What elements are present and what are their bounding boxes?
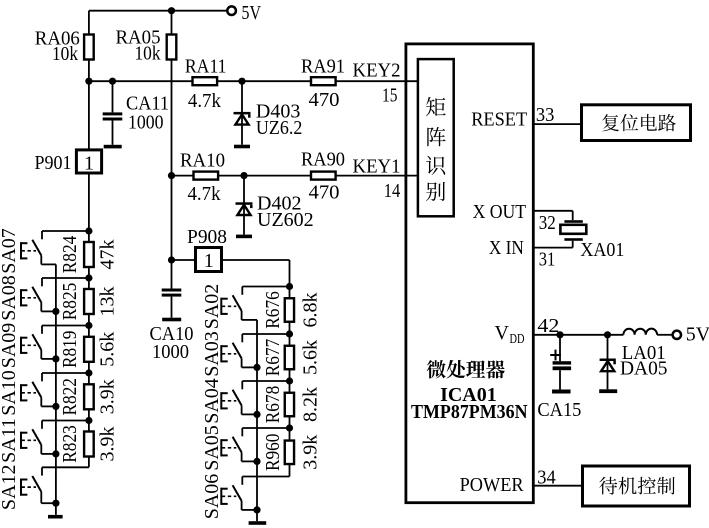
resistor R824: [84, 242, 94, 267]
svg-text:SA03: SA03: [201, 331, 223, 377]
switch SA10: [41, 373, 43, 381]
node left bus 1: [52, 308, 59, 315]
svg-text:3.9k: 3.9k: [97, 379, 119, 414]
svg-text:SA10: SA10: [0, 370, 20, 416]
svg-text:DA05: DA05: [620, 357, 668, 379]
wire SA07 bottom: [41, 263, 56, 265]
diode D403 zener: [241, 81, 243, 145]
svg-text:UZ6.2: UZ6.2: [256, 117, 303, 139]
svg-text:SA06: SA06: [201, 474, 223, 520]
svg-text:33: 33: [536, 104, 555, 126]
label matrix char 别: [426, 182, 445, 201]
svg-text:1: 1: [204, 250, 214, 272]
wire SA07 top: [42, 230, 89, 232]
wire RA05 to P908: [171, 176, 173, 289]
node left bus 3: [52, 403, 59, 410]
node P908 tap: [168, 256, 175, 263]
wire SA08 bottom: [41, 310, 56, 312]
wire X IN pin: [572, 241, 574, 248]
svg-text:SA11: SA11: [0, 418, 20, 463]
svg-text:SA04: SA04: [201, 378, 223, 424]
svg-text:R822: R822: [59, 378, 81, 416]
resistor R822: [84, 384, 94, 409]
wire RESET pin: [533, 123, 581, 125]
switch SA04: [241, 381, 243, 389]
svg-text:KEY2: KEY2: [353, 59, 401, 81]
label standby control: [599, 477, 617, 495]
node left chain 2: [85, 322, 92, 329]
svg-text:X IN: X IN: [489, 237, 524, 259]
node mid chain 2: [286, 377, 293, 384]
svg-text:RA11: RA11: [185, 55, 227, 77]
capacitor CA15: [559, 335, 561, 361]
node left chain 4: [85, 417, 92, 424]
switch SA08: [41, 278, 43, 286]
node mid bus 1: [253, 364, 260, 371]
wire middle chain: [289, 287, 291, 477]
resistor RA90: [311, 172, 336, 180]
label matrix char 识: [426, 156, 445, 175]
ground D402: [236, 235, 252, 239]
wire SA04 top: [242, 380, 289, 382]
node mid chain 1: [286, 330, 293, 337]
block reset circuit: [582, 105, 691, 141]
node mid chain 3: [286, 424, 293, 431]
svg-text:XA01: XA01: [580, 239, 624, 261]
svg-text:14: 14: [384, 180, 401, 202]
wire X OUT pin: [533, 210, 572, 212]
wire KEY2 row: [89, 80, 418, 82]
wire SA03 bottom: [242, 366, 257, 368]
ground middle ladder: [256, 510, 258, 521]
wire SA09 bottom: [41, 358, 56, 360]
connector P901: [88, 81, 90, 150]
wire middle bus: [256, 320, 258, 510]
label matrix char 矩: [426, 97, 446, 116]
svg-text:31: 31: [539, 248, 556, 270]
svg-text:P908: P908: [187, 226, 227, 248]
node CA15: [556, 331, 563, 338]
connector P908: [172, 259, 196, 261]
svg-text:10k: 10k: [52, 43, 78, 65]
svg-text:TMP87PM36N: TMP87PM36N: [411, 401, 528, 423]
wire KEY1 row: [172, 175, 418, 177]
svg-text:R819: R819: [59, 331, 81, 369]
wire POWER pin: [533, 485, 582, 487]
svg-text:RA91: RA91: [301, 55, 345, 77]
resistor R678: [285, 393, 294, 417]
svg-text:3.9k: 3.9k: [300, 435, 322, 470]
ground CA15: [552, 390, 571, 394]
svg-text:5V: 5V: [242, 2, 262, 24]
svg-text:6.8k: 6.8k: [300, 293, 322, 328]
resistor RA10: [194, 172, 219, 180]
svg-text:R825: R825: [59, 283, 81, 321]
wire SA06 bottom: [242, 509, 257, 511]
node KEY2-D403: [238, 78, 245, 85]
node left chain 1: [85, 274, 92, 281]
svg-text:1000: 1000: [152, 341, 189, 363]
capacitor CA11: [112, 81, 114, 112]
node RA05 top junction: [168, 7, 175, 14]
ground left ladder: [55, 503, 57, 515]
svg-text:15: 15: [382, 85, 398, 107]
wire SA04 bottom: [242, 413, 257, 415]
resistor R676: [285, 298, 294, 322]
resistor RA11: [193, 77, 218, 85]
svg-text:R824: R824: [59, 236, 81, 274]
wire SA09 top: [42, 325, 89, 327]
switch SA09: [41, 326, 43, 334]
ground CA11: [104, 145, 122, 149]
diode DA05 zener: [607, 335, 609, 390]
svg-text:4.7k: 4.7k: [188, 90, 221, 112]
resistor R819: [84, 337, 94, 362]
wire 5V rail top: [89, 10, 227, 12]
node mid bus 2: [253, 411, 260, 418]
svg-text:34: 34: [537, 466, 556, 488]
ground CA10: [162, 318, 181, 322]
wire left chain: [88, 231, 90, 467]
switch SA07: [41, 231, 43, 239]
diode D402 zener: [243, 176, 245, 235]
svg-text:R677: R677: [262, 339, 284, 377]
svg-text:3.9k: 3.9k: [97, 427, 119, 462]
svg-text:R676: R676: [262, 291, 284, 329]
switch SA05: [241, 428, 243, 436]
crystal XA01: [564, 220, 582, 223]
node left bus 4: [52, 450, 59, 457]
svg-text:R678: R678: [262, 386, 284, 424]
svg-text:1: 1: [84, 153, 94, 175]
svg-text:5V: 5V: [686, 324, 709, 346]
svg-text:SA02: SA02: [201, 284, 223, 330]
node mid chain 0: [286, 283, 293, 290]
wire SA05 bottom: [242, 460, 257, 462]
svg-text:SA07: SA07: [0, 228, 20, 274]
node KEY2-CA11: [109, 78, 116, 85]
svg-text:R960: R960: [262, 434, 284, 472]
svg-text:SA08: SA08: [0, 275, 20, 321]
svg-text:P901: P901: [35, 152, 72, 174]
IC ICA01 TMP87PM36N outline: [406, 44, 533, 503]
node KEY1-RA05: [168, 172, 175, 179]
node KEY1-D402: [240, 172, 247, 179]
resistor RA06: [88, 11, 90, 82]
svg-text:UZ602: UZ602: [257, 209, 314, 231]
wire SA11 bottom: [41, 453, 56, 455]
svg-text:DD: DD: [510, 332, 525, 347]
label reset circuit: [602, 114, 619, 131]
switch SA03: [241, 334, 243, 342]
svg-text:47k: 47k: [97, 240, 119, 270]
svg-text:SA12: SA12: [0, 465, 20, 511]
wire SA11 top: [42, 420, 89, 422]
svg-text:RA90: RA90: [301, 149, 345, 171]
node mid bus 3: [253, 458, 260, 465]
terminal 5V top: [227, 6, 236, 15]
terminal 5V right: [673, 331, 681, 339]
svg-text:RA10: RA10: [180, 149, 225, 171]
svg-text:4.7k: 4.7k: [188, 183, 221, 205]
node left bus 2: [52, 355, 59, 362]
capacitor CA10: [162, 289, 182, 292]
resistor R825: [84, 289, 94, 314]
svg-text:10k: 10k: [135, 43, 161, 65]
wire left bus: [55, 264, 57, 503]
switch SA12: [41, 467, 43, 475]
svg-text:5.6k: 5.6k: [97, 332, 119, 367]
wire P908 to ladder2: [222, 259, 290, 261]
svg-text:42: 42: [537, 315, 559, 337]
svg-text:CA15: CA15: [537, 399, 581, 421]
ground D403: [234, 145, 250, 149]
wire SA03 top: [242, 333, 289, 335]
wire SA02 top: [242, 286, 289, 288]
svg-text:R823: R823: [59, 425, 81, 463]
inductor LA01: [623, 329, 657, 335]
svg-text:13k: 13k: [97, 287, 119, 317]
svg-text:1000: 1000: [128, 112, 164, 134]
svg-text:8.2k: 8.2k: [300, 387, 322, 422]
switch SA02: [241, 287, 243, 295]
node left bus 5: [52, 500, 59, 507]
label matrix char 阵: [427, 127, 445, 146]
svg-text:V: V: [495, 322, 510, 344]
resistor R823: [84, 432, 94, 457]
switch SA11: [41, 421, 43, 429]
resistor R960: [285, 441, 294, 465]
resistor R677: [285, 346, 294, 370]
svg-text:470: 470: [309, 89, 340, 111]
svg-text:SA05: SA05: [201, 425, 223, 471]
block standby control: [583, 466, 690, 506]
matrix-recognition inner block: [418, 59, 454, 216]
node DA05: [604, 331, 611, 338]
svg-text:POWER: POWER: [460, 474, 525, 496]
node KEY2-RA06: [85, 78, 92, 85]
wire SA12 bottom: [41, 502, 56, 504]
wire SA05 top: [242, 427, 289, 429]
node mid bus 4: [253, 506, 260, 513]
svg-text:SA09: SA09: [0, 323, 20, 369]
wire VDD rail: [533, 334, 623, 336]
wire SA12 top: [42, 466, 89, 468]
node left chain 3: [85, 369, 92, 376]
wire SA06 top: [242, 476, 289, 478]
ground DA05: [599, 389, 617, 393]
label MCU chinese: [427, 360, 446, 379]
node left chain 0: [85, 227, 92, 234]
wire SA10 top: [42, 372, 89, 374]
svg-text:470: 470: [309, 182, 340, 204]
wire SA10 bottom: [41, 405, 56, 407]
svg-text:5.6k: 5.6k: [300, 340, 322, 375]
svg-text:32: 32: [539, 212, 556, 234]
wire SA02 bottom: [242, 319, 257, 321]
svg-text:KEY1: KEY1: [353, 155, 401, 177]
svg-text:X OUT: X OUT: [473, 201, 527, 223]
wire SA08 top: [42, 277, 89, 279]
svg-text:RESET: RESET: [471, 109, 527, 131]
resistor RA05: [171, 11, 173, 176]
switch SA06: [241, 477, 243, 485]
resistor RA91: [311, 77, 336, 85]
